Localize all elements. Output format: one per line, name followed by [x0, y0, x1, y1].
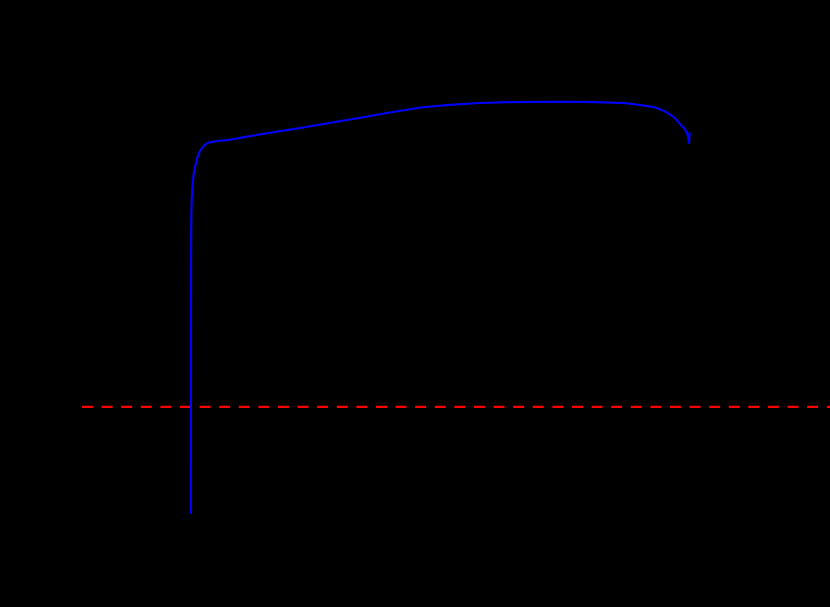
blue data curve [191, 102, 690, 514]
red dashed horizontal reference line [82, 406, 830, 408]
